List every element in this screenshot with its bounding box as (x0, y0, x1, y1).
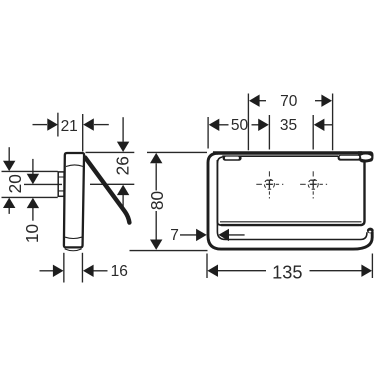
svg-text:16: 16 (111, 263, 128, 280)
svg-text:20: 20 (5, 174, 25, 193)
svg-text:21: 21 (61, 118, 78, 135)
svg-text:35: 35 (280, 117, 297, 134)
svg-text:50: 50 (231, 117, 249, 134)
svg-text:70: 70 (280, 93, 298, 110)
svg-text:26: 26 (113, 156, 133, 175)
svg-text:135: 135 (272, 262, 302, 282)
svg-text:10: 10 (22, 224, 42, 243)
svg-text:7: 7 (170, 227, 179, 244)
svg-text:80: 80 (147, 191, 167, 210)
